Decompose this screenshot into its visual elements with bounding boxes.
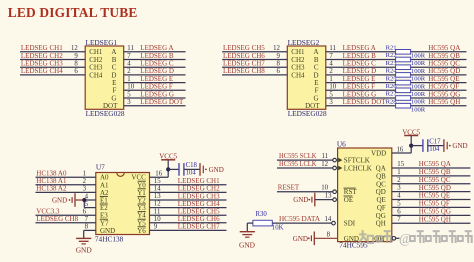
svg-text:6: 6	[83, 209, 87, 216]
ground after C17	[428, 139, 468, 152]
wire LEDSEG C (pin 4)	[124, 60, 186, 68]
wire LEDSEG F (pin 10)	[124, 83, 186, 91]
svg-text:R23: R23	[386, 60, 398, 67]
capacitor C17 104	[411, 138, 441, 153]
resistor R28 100R	[386, 98, 426, 113]
svg-text:13: 13	[325, 193, 332, 200]
clock mark U6 pin 11	[338, 158, 342, 163]
svg-text:100R: 100R	[411, 68, 426, 75]
resistor R26 100R	[386, 83, 426, 98]
svg-text:C17: C17	[429, 138, 441, 145]
svg-text:R21: R21	[386, 45, 397, 52]
svg-text:3: 3	[83, 186, 87, 193]
svg-text:4: 4	[397, 193, 401, 200]
wire HC595 QG	[411, 90, 467, 98]
svg-text:HC595 QE: HC595 QE	[419, 192, 450, 200]
svg-text:VDD: VDD	[371, 150, 386, 158]
svg-text:6: 6	[397, 208, 401, 215]
clock mark U6 pin 12	[338, 166, 342, 171]
svg-text:GND: GND	[76, 245, 93, 254]
svg-text:R30: R30	[256, 211, 268, 218]
svg-text:OE: OE	[344, 196, 353, 204]
svg-text:R28: R28	[386, 98, 398, 105]
stub U6 pin 9 QH'	[392, 237, 399, 241]
svg-text:GND: GND	[209, 166, 224, 174]
svg-text:QE: QE	[376, 196, 385, 204]
wire RESET (pin 10)	[277, 184, 336, 194]
svg-text:QB: QB	[376, 172, 386, 180]
wire HC595 QE	[411, 75, 467, 83]
svg-text:9: 9	[154, 224, 158, 231]
notch on U7 symbol	[117, 173, 125, 177]
svg-text:R24: R24	[386, 68, 398, 75]
svg-text:GND: GND	[239, 241, 256, 250]
svg-text:3: 3	[397, 185, 401, 192]
wire LEDSEG G to resistor R27 (pin 5)	[326, 90, 396, 98]
svg-text:11: 11	[154, 208, 161, 215]
wire LEDSEG CH2 (pin 9)	[20, 52, 85, 60]
wire HC595 QG (U6 pin 6)	[392, 208, 471, 216]
svg-text:SDI: SDI	[344, 220, 356, 228]
svg-text:LEDSEG DOT: LEDSEG DOT	[140, 98, 184, 106]
svg-text:14: 14	[154, 186, 161, 193]
wire LEDSEG A to resistor R21 (pin 11)	[326, 44, 396, 52]
svg-text:Y6: Y6	[137, 227, 146, 235]
svg-text:R22: R22	[386, 52, 397, 59]
svg-text:5: 5	[85, 201, 89, 208]
svg-text:QG: QG	[376, 212, 386, 220]
wire LEDSEG E to resistor R25 (pin 1)	[326, 75, 396, 83]
wire LEDSEG CH5 (U7 pin 11)	[150, 208, 227, 216]
svg-text:104: 104	[186, 170, 197, 177]
svg-text:14: 14	[325, 216, 332, 223]
svg-text:HC595 QD: HC595 QD	[419, 184, 451, 192]
svg-text:5: 5	[329, 91, 333, 98]
svg-text:HC595 QB: HC595 QB	[419, 168, 451, 176]
svg-text:5: 5	[127, 91, 131, 98]
wire LEDSEG CH1 (pin 12)	[20, 44, 85, 52]
svg-text:R27: R27	[386, 91, 398, 98]
wire LEDSEG CH3 (U7 pin 13)	[150, 192, 227, 200]
svg-text:LEDSEG028: LEDSEG028	[288, 109, 327, 118]
svg-text:9: 9	[74, 53, 78, 60]
wire HC595 QA (U6 pin 15)	[392, 160, 471, 168]
resistor R24 100R	[386, 68, 426, 83]
wire HC595 QD	[411, 67, 467, 75]
svg-text:10: 10	[321, 185, 328, 192]
svg-text:12: 12	[321, 161, 328, 168]
svg-text:100R: 100R	[411, 83, 426, 90]
svg-text:QD: QD	[376, 188, 386, 196]
connector LEDSEG1 (LEDSEG028)	[85, 38, 125, 118]
svg-text:7: 7	[127, 53, 131, 60]
wire HC138 A1 (pin 2)	[36, 177, 96, 185]
svg-text:13: 13	[154, 193, 161, 200]
svg-text:GND: GND	[452, 142, 467, 150]
svg-text:12: 12	[154, 201, 161, 208]
svg-text:10: 10	[127, 84, 134, 91]
svg-text:74HC138: 74HC138	[95, 235, 124, 244]
svg-text:10: 10	[329, 84, 336, 91]
svg-text:11: 11	[321, 153, 328, 160]
wire LEDSEG B (pin 7)	[124, 52, 186, 60]
wire HC595 QB	[411, 52, 467, 60]
wire HC595 QA	[411, 44, 467, 52]
svg-text:HC595 QH: HC595 QH	[428, 98, 460, 106]
svg-text:RST: RST	[344, 188, 358, 196]
svg-text:GND: GND	[293, 196, 308, 204]
svg-text:U6: U6	[337, 140, 346, 149]
svg-text:16: 16	[155, 170, 162, 177]
svg-text:3: 3	[329, 99, 333, 106]
wire U6 pin 16 to VCC5	[392, 146, 411, 154]
svg-text:100R: 100R	[411, 99, 426, 106]
svg-text:QC: QC	[376, 180, 386, 188]
svg-text:8: 8	[85, 224, 89, 231]
wire LEDSEG E (pin 1)	[124, 75, 186, 83]
wire LEDSEG D to resistor R24 (pin 2)	[326, 67, 396, 75]
svg-text:LEDSEG CH8: LEDSEG CH8	[223, 67, 265, 75]
svg-text:CH4: CH4	[89, 71, 103, 79]
svg-text:4: 4	[127, 61, 131, 68]
svg-text:LED DIGITAL TUBE: LED DIGITAL TUBE	[8, 5, 138, 20]
svg-text:6: 6	[74, 68, 78, 75]
ground on U7 pin 8	[76, 224, 96, 255]
capacitor C18 104	[168, 162, 197, 177]
svg-text:15: 15	[397, 161, 404, 168]
wire LEDSEG C to resistor R23 (pin 4)	[326, 60, 396, 68]
svg-text:100R: 100R	[411, 91, 426, 98]
wire VCC3.3 (pin 6)	[36, 208, 96, 216]
resistor R22 100R	[386, 52, 426, 67]
resistor R21 100R	[386, 45, 426, 60]
wire HC595 DATA (pin 14)	[272, 215, 335, 225]
svg-text:1: 1	[83, 171, 86, 178]
svg-text:RESET: RESET	[278, 184, 300, 192]
connector LEDSEG2 (LEDSEG028)	[287, 38, 327, 118]
svg-text:HC595 QA: HC595 QA	[419, 160, 451, 168]
wire LEDSEG CH8 (pin 7)	[36, 215, 96, 223]
svg-text:2: 2	[397, 177, 401, 184]
svg-text:CH4: CH4	[291, 71, 305, 79]
resistor R25 100R	[386, 75, 426, 90]
wire LEDSEG A (pin 11)	[124, 44, 186, 52]
wire HC595 QF (U6 pin 5)	[392, 200, 471, 208]
svg-text:1: 1	[127, 76, 130, 83]
wire LEDSEG CH6 (pin 9)	[222, 52, 287, 60]
svg-text:4: 4	[85, 193, 89, 200]
wire LEDSEG CH7 (pin 8)	[222, 60, 287, 68]
svg-text:HC595 LCLK: HC595 LCLK	[279, 160, 317, 168]
svg-text:LEDSEG CH4: LEDSEG CH4	[21, 67, 63, 75]
svg-text:GND: GND	[344, 235, 359, 243]
wire HC138 A0 (pin 1)	[36, 170, 96, 178]
svg-text:LEDSEG1: LEDSEG1	[86, 38, 118, 47]
ground symbol on U7 pins 4,5 (E1,E2)	[52, 193, 96, 208]
svg-text:GND: GND	[52, 197, 67, 205]
svg-text:2: 2	[329, 68, 333, 75]
svg-text:LEDSEG028: LEDSEG028	[86, 109, 125, 118]
power port VCC5 (U7)	[159, 153, 177, 172]
resistor R23 100R	[386, 60, 426, 75]
svg-text:QA: QA	[376, 165, 386, 173]
wire HC595 QC	[411, 60, 467, 68]
svg-text:2: 2	[127, 68, 131, 75]
wire LEDSEG CH8 (pin 6)	[222, 67, 287, 75]
wire HC138 A2 (pin 3)	[36, 185, 96, 193]
svg-text:7: 7	[85, 216, 89, 223]
decoder U7 74HC138	[95, 163, 150, 244]
power port VCC5 (U6)	[402, 128, 420, 147]
svg-text:DOT: DOT	[305, 102, 320, 110]
svg-text:12: 12	[273, 45, 280, 52]
svg-text:10: 10	[154, 216, 161, 223]
ground below R30	[239, 223, 256, 249]
svg-text:HC595 SCLK: HC595 SCLK	[279, 152, 317, 160]
svg-text:HC595 QG: HC595 QG	[419, 208, 451, 216]
wire LEDSEG B to resistor R22 (pin 7)	[326, 52, 396, 60]
wire HC595 QD (U6 pin 3)	[392, 184, 471, 192]
svg-text:100R: 100R	[411, 53, 426, 60]
svg-text:7: 7	[397, 216, 401, 223]
wire HC595 SCLK (pin 11)	[277, 152, 336, 162]
svg-text:7: 7	[329, 53, 333, 60]
wire LEDSEG CH5 (pin 12)	[222, 44, 287, 52]
svg-text:100R: 100R	[411, 60, 426, 67]
resistor R30 10K	[253, 211, 284, 232]
svg-text:3: 3	[127, 99, 131, 106]
wire LEDSEG CH4 (U7 pin 12)	[150, 200, 227, 208]
svg-text:LEDSEG DOT: LEDSEG DOT	[343, 98, 387, 106]
svg-text:QF: QF	[377, 204, 386, 212]
svg-text:100R: 100R	[411, 106, 426, 113]
svg-text:LCHCLK: LCHCLK	[344, 165, 372, 173]
shift register U6 74HC595	[337, 140, 392, 250]
svg-text:LEDSEG2: LEDSEG2	[288, 38, 320, 47]
wire LEDSEG CH4 (pin 6)	[20, 67, 85, 75]
wire LEDSEG CH3 (pin 8)	[20, 60, 85, 68]
svg-text:11: 11	[127, 45, 134, 52]
svg-text:15: 15	[154, 178, 161, 185]
wire U7 pin 16 to VCC5	[150, 169, 169, 177]
wire HC595 QH (U6 pin 7)	[392, 215, 471, 223]
svg-text:16: 16	[397, 147, 404, 154]
svg-text:8: 8	[74, 61, 78, 68]
svg-text:HC595 QF: HC595 QF	[419, 200, 450, 208]
svg-text:HC595 QH: HC595 QH	[419, 215, 451, 223]
svg-text:6: 6	[276, 68, 280, 75]
wire LEDSEG CH7 (U7 pin 9)	[150, 223, 227, 231]
svg-text:2: 2	[83, 178, 87, 185]
ground after C18	[184, 163, 224, 176]
svg-text:8: 8	[276, 61, 280, 68]
svg-text:12: 12	[71, 45, 78, 52]
svg-text:9: 9	[276, 53, 280, 60]
svg-text:DOT: DOT	[103, 102, 118, 110]
svg-text:HC595 DATA: HC595 DATA	[279, 215, 320, 223]
wire LEDSEG G (pin 5)	[124, 90, 186, 98]
svg-text:GND: GND	[293, 235, 308, 243]
wire LEDSEG CH2 (U7 pin 14)	[150, 185, 227, 193]
watermark zhihu @guji-gulu	[358, 230, 471, 247]
ground on U6 pin 13 (OE)	[293, 193, 336, 207]
svg-text:R25: R25	[386, 75, 398, 82]
wire LEDSEG CH6 (U7 pin 10)	[150, 215, 227, 223]
svg-text:U7: U7	[96, 163, 105, 172]
svg-text:5: 5	[397, 200, 401, 207]
resistor R27 100R	[386, 91, 426, 106]
svg-text:8: 8	[327, 231, 331, 238]
wire LEDSEG F to resistor R26 (pin 10)	[326, 83, 396, 91]
wire LEDSEG DOT to resistor R28 (pin 3)	[326, 98, 396, 106]
wire HC595 LCLK (pin 12)	[277, 160, 336, 170]
svg-text:HC595 QC: HC595 QC	[419, 176, 451, 184]
wire HC595 QH	[411, 98, 467, 106]
ground on U6 pin 8	[293, 231, 338, 245]
wire HC595 QF	[411, 83, 467, 91]
svg-text:4: 4	[329, 61, 333, 68]
svg-text:C18: C18	[186, 162, 198, 169]
svg-text:1: 1	[397, 169, 400, 176]
wire HC595 QC (U6 pin 2)	[392, 176, 471, 184]
svg-text:QH: QH	[376, 220, 386, 228]
svg-text:11: 11	[329, 45, 336, 52]
svg-text:HC138 A2: HC138 A2	[36, 185, 67, 193]
svg-text:1: 1	[329, 76, 332, 83]
svg-text:R26: R26	[386, 83, 398, 90]
svg-text:GND: GND	[100, 227, 115, 235]
svg-text:10K: 10K	[272, 225, 284, 232]
svg-text:SFTCLK: SFTCLK	[344, 157, 370, 165]
wire LEDSEG D (pin 2)	[124, 67, 186, 75]
wire HC595 QE (U6 pin 4)	[392, 192, 471, 200]
svg-text:100R: 100R	[411, 76, 426, 83]
wire HC595 QB (U6 pin 1)	[392, 168, 471, 176]
svg-text:LEDSEG CH7: LEDSEG CH7	[178, 223, 220, 231]
svg-text:104: 104	[429, 146, 440, 153]
svg-text:LEDSEG CH8: LEDSEG CH8	[36, 215, 78, 223]
wire LEDSEG DOT (pin 3)	[124, 98, 186, 106]
wire LEDSEG CH1 (U7 pin 15)	[150, 177, 227, 185]
